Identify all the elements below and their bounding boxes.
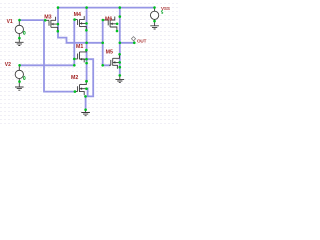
svg-text:OUT: OUT [137,39,147,44]
svg-text:V1: V1 [7,19,13,25]
svg-text:M3: M3 [44,14,51,20]
svg-text:M6: M6 [105,16,112,22]
svg-text:VSS: VSS [161,6,170,11]
svg-text:M1: M1 [76,44,83,50]
svg-text:M2: M2 [71,75,78,81]
svg-text:M5: M5 [106,49,113,55]
svg-text:V2: V2 [5,62,11,68]
svg-text:M4: M4 [74,12,81,18]
